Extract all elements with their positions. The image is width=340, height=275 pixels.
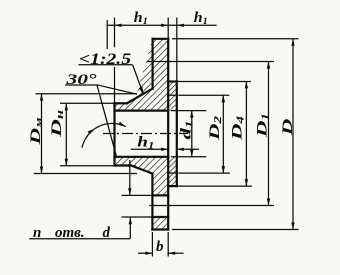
flange plate lower section hatch bbox=[115, 157, 169, 196]
svg-text:d: d bbox=[103, 225, 111, 241]
angle arc bbox=[82, 123, 126, 147]
arrow hole dim down bbox=[128, 188, 131, 195]
arrow d1 up bbox=[190, 111, 193, 118]
hub bottom face bbox=[115, 164, 132, 166]
ext d1 bottom bbox=[171, 156, 206, 158]
arrow h1 top bbox=[177, 24, 184, 27]
arrow D2 down bbox=[222, 166, 225, 173]
dim h1 center left part bbox=[131, 148, 169, 150]
ext Dm top bbox=[36, 93, 138, 95]
hub left face bbox=[113, 103, 115, 165]
hub top face bbox=[115, 102, 128, 104]
ring right face bbox=[176, 82, 178, 187]
dim D2 bbox=[222, 95, 224, 173]
arrow h left bbox=[115, 24, 122, 27]
arrow h1 center left tip bbox=[177, 148, 184, 151]
centerline bbox=[103, 133, 188, 135]
flange plate upper section hatch bbox=[115, 39, 169, 111]
ext D1 bottom / bolt hole axis bbox=[149, 205, 274, 207]
ext Dn top bbox=[60, 102, 115, 104]
arrow D up bbox=[291, 39, 294, 46]
arrow h1 center right tip bbox=[161, 148, 168, 151]
arrow D1 down bbox=[267, 199, 270, 206]
arrow D1 up bbox=[267, 62, 270, 69]
dim Dm bbox=[41, 94, 43, 174]
dim Dn bbox=[65, 103, 67, 165]
arrow b right bbox=[168, 252, 175, 255]
dim b left bbox=[138, 252, 152, 254]
ring bottom edge bbox=[168, 185, 177, 187]
ext hub face up bbox=[114, 18, 116, 104]
bottom taper bbox=[131, 166, 152, 174]
ext b left bbox=[151, 232, 153, 257]
svg-text:b: b bbox=[156, 239, 164, 255]
dim D bbox=[292, 39, 294, 230]
dim b right bbox=[168, 252, 183, 254]
ext D4 top bbox=[177, 81, 251, 83]
arrow arc right end bbox=[118, 122, 126, 127]
bore bottom edge bbox=[115, 156, 169, 158]
bolt hole bottom edge bbox=[152, 216, 168, 218]
arrowheads bbox=[40, 24, 295, 255]
svg-text:D: D bbox=[280, 119, 296, 137]
leader n otv d bbox=[129, 217, 131, 238]
dim h1 center right part bbox=[177, 148, 199, 150]
arrow d1 down bbox=[190, 150, 193, 157]
ext D2 bottom bbox=[178, 172, 230, 174]
dim vert at hole bbox=[129, 160, 131, 195]
svg-text:<1:2.5: <1:2.5 bbox=[79, 51, 131, 68]
svg-text:отв.: отв. bbox=[55, 225, 85, 241]
arrow Dm down bbox=[40, 167, 43, 174]
plate top edge bbox=[153, 38, 169, 40]
arrow Dn down bbox=[65, 159, 68, 166]
arrow D2 up bbox=[222, 95, 225, 102]
svg-text:n: n bbox=[33, 225, 41, 241]
arrow D4 up bbox=[245, 82, 248, 89]
arrow Dn up bbox=[65, 103, 68, 110]
slant 30 deg bbox=[97, 85, 117, 157]
ring step top bbox=[168, 94, 177, 96]
ext D1 top / bolt axis top bbox=[147, 61, 274, 63]
arrow D4 down bbox=[245, 179, 248, 186]
ext D top bbox=[172, 38, 299, 40]
ring lower band hatch bbox=[168, 157, 177, 186]
plate left face lower bbox=[151, 174, 153, 230]
dim D4 bbox=[245, 82, 247, 187]
plate right face bbox=[167, 39, 169, 230]
underline 30 bbox=[65, 84, 99, 86]
ext plate right face up bbox=[167, 18, 169, 39]
ext D bottom bbox=[172, 229, 299, 231]
plate bottom edge bbox=[152, 228, 168, 230]
ring step bottom bbox=[168, 172, 177, 174]
underline n otv d bbox=[29, 238, 130, 240]
ext D2 top bbox=[178, 94, 229, 96]
dim D1 bbox=[268, 62, 270, 206]
arrow Dm up bbox=[40, 94, 43, 101]
ext hole bottom left bbox=[122, 216, 153, 218]
underline 1:2.5 bbox=[78, 64, 132, 66]
ext hole top left bbox=[122, 194, 153, 196]
arrow b left bbox=[145, 252, 152, 255]
ext d1 top bbox=[171, 110, 206, 112]
svg-text:30°: 30° bbox=[65, 72, 96, 88]
ext b right bbox=[167, 232, 169, 257]
ext ring right face up bbox=[176, 18, 178, 82]
plate left face upper bbox=[152, 39, 154, 89]
arrow leader n otv up bbox=[129, 217, 132, 224]
leader 1:2.5 bbox=[133, 65, 144, 95]
arrow h right-in bbox=[161, 24, 168, 27]
ring upper band hatch bbox=[168, 82, 177, 111]
arrow taper leader bbox=[139, 87, 144, 95]
bore top edge bbox=[115, 109, 169, 111]
ext D4 bottom bbox=[177, 185, 252, 187]
arrow D down bbox=[291, 223, 294, 230]
dim line top h bbox=[107, 24, 217, 26]
bolt hole top edge bbox=[152, 194, 168, 196]
arrow arc left end bbox=[88, 129, 95, 135]
ring top edge bbox=[168, 80, 177, 82]
dim d1 bbox=[191, 111, 193, 157]
ext tick left of h dim bbox=[106, 20, 108, 49]
ext Dm bottom bbox=[34, 173, 137, 175]
leader 30 shallow bbox=[99, 85, 137, 94]
taper 1:2.5 bbox=[127, 89, 153, 104]
ext Dn bottom bbox=[60, 165, 136, 167]
